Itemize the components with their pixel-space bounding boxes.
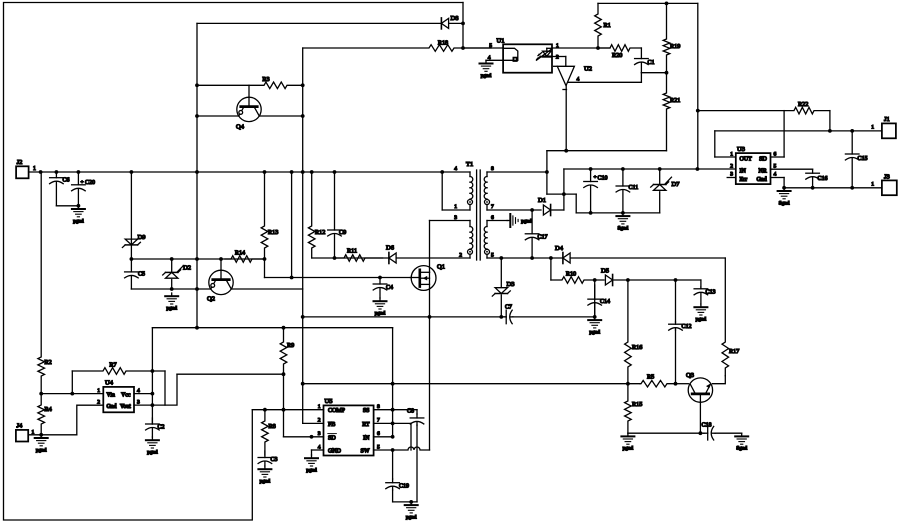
ground pgnd D2: [165, 293, 178, 312]
svg-text:R5: R5: [647, 374, 654, 381]
svg-text:GND: GND: [328, 449, 342, 455]
resistor R21: [663, 73, 680, 151]
capacitor C15: [845, 131, 867, 188]
svg-text:R12: R12: [315, 229, 325, 236]
wire aux vertical: [291, 172, 293, 278]
resistor R12: [308, 172, 325, 258]
svg-text:R20: R20: [612, 52, 622, 59]
wire R10 branch: [550, 258, 552, 280]
resistor R2: [38, 172, 52, 394]
capacitor C1: [635, 48, 655, 73]
svg-text:C5: C5: [138, 272, 145, 278]
wire COMP row: [252, 408, 323, 412]
connector J2: [16, 159, 36, 178]
svg-text:3: 3: [730, 172, 733, 178]
ground pgnd U1: [480, 60, 493, 79]
wire U2 anode: [565, 86, 567, 151]
resistor R19: [663, 3, 680, 72]
wire C6 C20 bottoms: [56, 204, 80, 208]
svg-text:4: 4: [774, 172, 777, 178]
wire U4 pin3: [134, 403, 154, 407]
svg-text:pgnd: pgnd: [306, 468, 317, 474]
wire snubber vertical: [461, 3, 465, 50]
connector J4: [16, 423, 35, 442]
resistor R1: [595, 3, 611, 48]
wire FB corner: [303, 422, 324, 424]
svg-text:R13: R13: [268, 229, 278, 236]
wire U3 pin3 stub: [727, 177, 736, 179]
svg-text:R21: R21: [670, 97, 680, 104]
transistor Q3: [686, 372, 713, 402]
capacitor C6: [50, 172, 70, 206]
svg-text:pgnd: pgnd: [696, 317, 707, 323]
wire R22 feed: [696, 3, 700, 169]
svg-text:COMP: COMP: [328, 408, 346, 414]
svg-text:Q4: Q4: [236, 124, 245, 131]
svg-text:pgnd: pgnd: [623, 446, 634, 452]
svg-text:Q2: Q2: [207, 296, 215, 303]
zener D2: [163, 259, 191, 289]
wire T1 pin3 row: [430, 220, 471, 222]
wire T1 pin8 rail: [487, 170, 549, 174]
svg-text:pgnd: pgnd: [375, 311, 386, 317]
wire snub node: [593, 278, 597, 317]
svg-text:SW: SW: [361, 449, 370, 455]
svg-text:J2: J2: [17, 159, 23, 166]
wire Q4 row left: [195, 114, 239, 118]
svg-text:Q3: Q3: [686, 372, 694, 379]
wire U1 pin5: [463, 47, 503, 49]
wire C1 bottom row: [641, 71, 668, 75]
svg-text:4: 4: [577, 77, 580, 83]
svg-text:C18: C18: [702, 423, 712, 429]
svg-text:C7: C7: [505, 305, 512, 311]
diode D1: [538, 197, 551, 216]
svg-text:C16: C16: [818, 176, 828, 182]
regulator U4: [97, 380, 140, 413]
ground pgnd C2: [146, 437, 159, 456]
svg-text:SD: SD: [328, 435, 336, 441]
wire C7 row: [301, 315, 506, 319]
resistor R3: [195, 76, 305, 89]
wire staircase: [547, 151, 576, 213]
svg-text:C20: C20: [85, 180, 95, 186]
wire U3 pin6: [771, 111, 785, 157]
svg-text:pgnd: pgnd: [589, 329, 600, 335]
resistor R14: [225, 250, 265, 263]
wire Vcc vertical: [151, 328, 153, 424]
wire R13 lower: [263, 257, 267, 277]
ground pgnd C4: [374, 298, 387, 317]
wire U4 pin4: [134, 392, 154, 396]
svg-text:C1: C1: [648, 60, 655, 66]
svg-text:C15: C15: [858, 156, 868, 162]
svg-text:U5: U5: [325, 398, 333, 405]
wire D1 to rail: [563, 169, 565, 194]
svg-text:U4: U4: [105, 380, 114, 387]
svg-text:D4: D4: [555, 245, 564, 252]
wire left drive vertical: [196, 23, 198, 327]
svg-text:C14: C14: [600, 299, 610, 305]
svg-text:Gnd: Gnd: [756, 177, 766, 183]
svg-text:pgnd: pgnd: [521, 219, 532, 225]
wire Q3 base: [676, 383, 689, 385]
svg-text:C19: C19: [399, 484, 409, 490]
wire C19 gnd row: [393, 500, 417, 504]
svg-text:R3: R3: [262, 76, 269, 83]
svg-text:R2: R2: [45, 359, 52, 366]
svg-text:SS: SS: [363, 408, 370, 414]
svg-text:NR: NR: [758, 169, 766, 175]
wire top right rail: [598, 2, 698, 6]
resistor R16: [625, 280, 643, 384]
zener D7: [651, 169, 680, 213]
svg-text:U1: U1: [497, 38, 505, 45]
svg-text:D7: D7: [672, 181, 681, 188]
svg-text:R4: R4: [45, 406, 52, 413]
wire sense gnd row: [628, 432, 704, 434]
wire U4 out row: [152, 372, 285, 405]
wire C18 out: [715, 432, 742, 434]
svg-text:FB: FB: [328, 422, 335, 428]
svg-text:SD: SD: [759, 157, 767, 163]
wire sec out row: [784, 186, 882, 190]
ground Sgnd U3: [778, 188, 791, 207]
svg-text:D8: D8: [451, 15, 459, 22]
wire D1 out: [552, 209, 564, 211]
svg-text:R17: R17: [729, 348, 739, 355]
svg-text:1: 1: [454, 204, 457, 210]
wire Q4 row right: [259, 114, 305, 118]
capacitor C17: [525, 208, 547, 260]
wire main rail: [29, 171, 470, 173]
wire FB supply vertical: [302, 48, 304, 423]
wire Q1 drain: [429, 221, 431, 273]
capacitor C8: [407, 409, 424, 502]
svg-text:C2: C2: [158, 425, 165, 431]
capacitor C7: [503, 305, 595, 324]
svg-text:2: 2: [556, 54, 559, 60]
ground pgnd C3: [258, 466, 271, 485]
svg-text:Err: Err: [740, 177, 748, 183]
zener D9: [122, 172, 145, 259]
svg-text:1: 1: [33, 166, 36, 172]
svg-text:Vout: Vout: [120, 404, 131, 410]
svg-text:R14: R14: [235, 250, 245, 257]
svg-text:7: 7: [491, 204, 494, 210]
svg-text:Vcc: Vcc: [121, 393, 131, 399]
svg-text:C8: C8: [407, 409, 414, 415]
wire secondary rail: [564, 167, 736, 171]
ground pgnd U5: [305, 455, 318, 474]
svg-text:T1: T1: [466, 161, 473, 168]
wire R14 row: [130, 257, 265, 261]
svg-text:R7: R7: [109, 362, 116, 369]
wire D5 out row: [614, 278, 701, 282]
ground pgnd C13: [694, 304, 707, 323]
svg-text:R9: R9: [287, 342, 294, 349]
optocoupler U1: [488, 38, 559, 73]
wire U4 in row: [39, 392, 103, 396]
svg-text:D5: D5: [601, 268, 609, 275]
svg-text:Vin: Vin: [107, 393, 115, 399]
wire RT row: [374, 422, 411, 451]
wire U4 pin2: [77, 405, 104, 435]
svg-text:1: 1: [871, 125, 874, 131]
capacitor C11: [616, 169, 638, 213]
wire D8 row: [197, 22, 463, 24]
svg-text:Sgnd: Sgnd: [736, 446, 747, 452]
resistor R9: [280, 328, 294, 375]
wire U3 pin5: [771, 168, 813, 170]
svg-text:J4: J4: [17, 423, 24, 430]
wire Q2 emitter: [231, 288, 303, 290]
zener D3: [492, 258, 514, 319]
svg-text:Q1: Q1: [437, 264, 445, 271]
resistor R20: [598, 45, 641, 59]
transistor Q2: [207, 259, 233, 303]
resistor R22: [698, 101, 830, 131]
svg-text:2: 2: [730, 164, 733, 170]
ground pgnd C19: [405, 502, 418, 521]
svg-text:pgnd: pgnd: [73, 218, 84, 224]
capacitor C19: [386, 450, 409, 502]
svg-text:D6: D6: [386, 245, 395, 252]
wire U5 gnd pin: [312, 450, 324, 455]
svg-text:R15: R15: [632, 401, 642, 408]
wire IN feed: [391, 382, 395, 437]
svg-text:D1: D1: [538, 197, 546, 204]
capacitor C5: [125, 259, 145, 289]
svg-text:R10: R10: [566, 271, 576, 278]
capacitor C20: [72, 172, 95, 206]
svg-text:+: +: [594, 175, 597, 181]
wire R9 bottom: [283, 374, 285, 410]
diode D6: [386, 245, 396, 264]
transformer T1: [454, 161, 494, 260]
svg-text:pgnd: pgnd: [147, 450, 158, 456]
shunt regulator U2: [554, 66, 642, 90]
svg-text:R11: R11: [347, 248, 357, 255]
wire gate row: [265, 276, 411, 280]
svg-text:pgnd: pgnd: [36, 447, 47, 453]
capacitor C3: [258, 451, 277, 466]
svg-text:C11: C11: [629, 185, 639, 191]
svg-text:C9: C9: [339, 229, 346, 236]
capacitor C18: [702, 423, 716, 441]
wire SD link: [283, 410, 285, 437]
wire sw drive row: [312, 256, 470, 260]
svg-text:C17: C17: [538, 235, 548, 241]
wire pgnd row: [131, 287, 211, 291]
capacitor C16: [806, 169, 828, 188]
resistor R18: [303, 40, 491, 52]
resistor R15: [625, 384, 643, 434]
svg-text:pgnd: pgnd: [260, 479, 271, 485]
capacitor C9: [328, 172, 347, 258]
wire SS row: [374, 408, 417, 412]
wire IN row: [374, 435, 395, 439]
diode D8: [441, 15, 458, 29]
regulator U3: [730, 146, 776, 184]
ground pgnd C14: [588, 315, 601, 335]
wire U2 anode row: [547, 149, 667, 153]
svg-text:pgnd: pgnd: [166, 306, 177, 312]
svg-text:R22: R22: [798, 101, 808, 108]
resistor R7: [72, 362, 165, 406]
wire supply row: [301, 382, 678, 386]
wire SW row: [374, 447, 430, 452]
svg-text:J1: J1: [884, 116, 890, 123]
svg-text:R18: R18: [438, 40, 448, 47]
svg-text:C3: C3: [271, 457, 278, 463]
resistor R8: [262, 410, 276, 455]
wire Q3 emitter: [699, 394, 703, 435]
wire supply jog: [392, 328, 394, 384]
svg-text:D9: D9: [138, 234, 146, 241]
ground Sgnd C11: [616, 213, 629, 232]
svg-text:R1: R1: [604, 22, 611, 29]
svg-text:Sgnd: Sgnd: [617, 225, 628, 231]
capacitor C10: [584, 169, 608, 213]
svg-text:Sgnd: Sgnd: [779, 200, 790, 206]
resistor R4: [38, 394, 52, 437]
wire Q1 source: [428, 272, 432, 450]
svg-text:1: 1: [318, 404, 321, 410]
svg-text:R8: R8: [269, 423, 276, 430]
svg-text:8: 8: [491, 166, 494, 172]
svg-text:IN: IN: [363, 435, 370, 441]
ground Sgnd C18: [735, 433, 748, 452]
ground pgnd R4: [35, 435, 48, 454]
svg-text:C12: C12: [682, 324, 692, 330]
wire J4 row: [28, 434, 77, 436]
wire T1 pin7 row: [487, 209, 541, 211]
svg-text:U3: U3: [737, 146, 745, 153]
svg-text:1: 1: [730, 152, 733, 158]
resistor R10: [551, 271, 604, 284]
svg-text:+: +: [81, 180, 84, 186]
svg-text:R19: R19: [670, 43, 680, 50]
svg-text:4: 4: [454, 166, 457, 172]
svg-text:2: 2: [318, 418, 321, 424]
wire U1 pin4: [486, 59, 503, 61]
svg-text:RT: RT: [362, 422, 370, 428]
svg-text:OUT: OUT: [740, 157, 753, 163]
capacitor C13: [694, 280, 715, 304]
svg-text:C13: C13: [706, 290, 716, 296]
capacitor C12: [669, 280, 692, 384]
diode D4: [555, 245, 570, 264]
wire T1 pin5 row: [487, 256, 725, 260]
wire Q3 collector: [713, 376, 726, 384]
svg-text:3: 3: [454, 215, 457, 221]
svg-text:C4: C4: [386, 285, 393, 291]
connector J1: [871, 116, 896, 138]
capacitor C4: [373, 278, 393, 299]
resistor R13: [261, 172, 278, 259]
svg-text:C6: C6: [63, 178, 70, 184]
mosfet Q1: [410, 264, 445, 291]
controller U5: [318, 398, 380, 456]
svg-text:3: 3: [318, 431, 321, 437]
node rail junctions: [39, 170, 444, 174]
resistor R11: [335, 248, 383, 262]
ground pgnd T1 pin6: [487, 214, 532, 227]
wire U1 pin2: [552, 57, 566, 67]
svg-text:6: 6: [377, 431, 380, 437]
capacitor C2: [146, 418, 165, 437]
svg-text:C10: C10: [598, 176, 608, 182]
svg-text:U2: U2: [584, 66, 592, 73]
svg-text:IN: IN: [740, 169, 747, 175]
connector J3: [871, 174, 897, 196]
svg-text:J3: J3: [884, 174, 890, 181]
wire R9 top row: [152, 326, 392, 330]
diode D5: [601, 268, 613, 286]
resistor R5: [640, 374, 676, 388]
svg-text:1: 1: [97, 388, 100, 394]
svg-text:2: 2: [459, 253, 462, 259]
svg-text:R16: R16: [632, 344, 642, 351]
capacitor C14: [588, 285, 610, 317]
wire U3 out row: [715, 129, 882, 157]
ground pgnd R15: [621, 433, 634, 452]
svg-text:7: 7: [377, 418, 380, 424]
svg-text:1: 1: [871, 182, 874, 188]
wire T1 pin1: [442, 172, 470, 210]
ground pgnd C20: [72, 206, 85, 225]
transistor Q4: [236, 85, 261, 130]
wire SD row: [284, 435, 324, 439]
svg-text:pgnd: pgnd: [481, 73, 492, 79]
svg-text:D3: D3: [507, 281, 515, 288]
wire U1 pin1: [552, 46, 610, 50]
wire top loop: [4, 3, 464, 521]
wire U3 pin4: [771, 178, 786, 190]
resistor R17: [722, 258, 739, 376]
svg-text:pgnd: pgnd: [406, 514, 417, 520]
svg-text:Gnd: Gnd: [107, 404, 117, 410]
wire secondary gnd row: [576, 211, 660, 215]
